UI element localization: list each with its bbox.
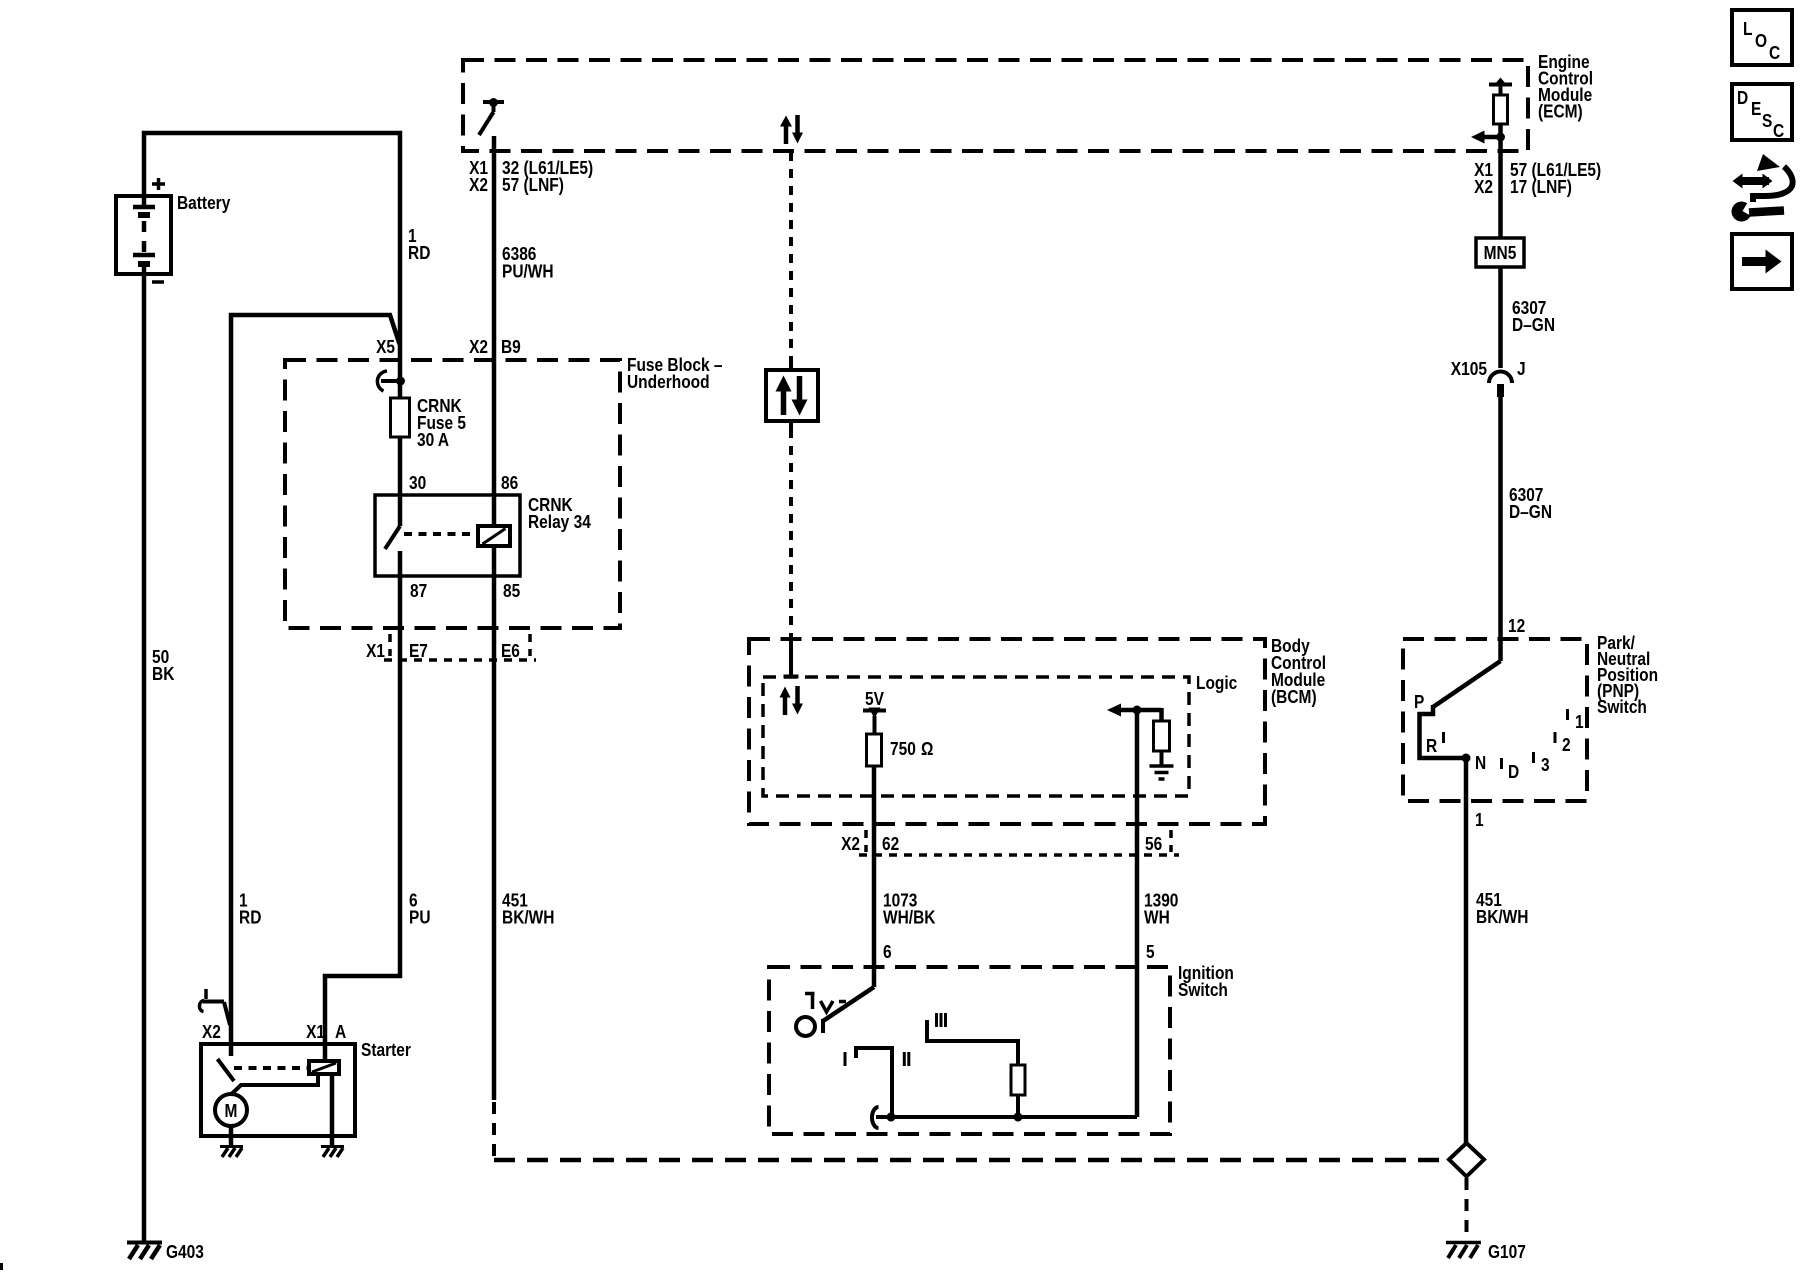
svg-text:12: 12	[1508, 616, 1525, 636]
svg-text:B9: B9	[501, 337, 521, 357]
ECM module outline (Engine Control Module)	[463, 60, 1528, 151]
wire label 50 BK	[152, 647, 174, 684]
icon DESC box	[1732, 84, 1792, 141]
connector row X1 E7 E6	[366, 641, 520, 661]
fuse block label	[627, 355, 723, 392]
svg-text:Battery: Battery	[177, 193, 230, 213]
wire motor to ground	[229, 1126, 234, 1146]
relay mechanical link dashed	[404, 532, 476, 536]
svg-text:RD: RD	[239, 908, 261, 928]
svg-text:R: R	[1426, 736, 1437, 756]
svg-text:5V: 5V	[865, 689, 884, 709]
BCM input arrow	[1107, 704, 1162, 717]
svg-text:WH: WH	[1144, 908, 1170, 928]
svg-text:G403: G403	[166, 1242, 204, 1262]
ignition momentary start arrow	[805, 994, 846, 1013]
wire BCM 56 input (1390)	[1135, 710, 1140, 1117]
PNP switch outline	[1403, 639, 1587, 801]
starter box	[201, 1044, 355, 1136]
svg-text:D–GN: D–GN	[1509, 502, 1552, 522]
svg-text:D–GN: D–GN	[1512, 315, 1555, 335]
BCM outline (Body Control Module)	[749, 639, 1265, 824]
position mark I	[844, 1052, 847, 1066]
5V supply	[863, 689, 886, 734]
svg-text:1: 1	[1475, 810, 1484, 830]
wire battery positive feed	[144, 133, 400, 398]
svg-text:G107: G107	[1488, 1242, 1526, 1262]
connector clip X2 starter	[199, 989, 230, 1025]
fuse block underhood outline	[285, 360, 620, 628]
wire resistor to bus	[1016, 1095, 1020, 1117]
dashed serial data wire lower	[789, 429, 793, 645]
position letter D with tick	[1502, 758, 1520, 782]
svg-text:3: 3	[1541, 755, 1550, 775]
svg-text:S: S	[1762, 111, 1772, 131]
svg-text:MN5: MN5	[1484, 243, 1517, 263]
dashed wire 451 vertical drop	[492, 1102, 496, 1158]
svg-text:2: 2	[1562, 735, 1571, 755]
starter solenoid coil	[309, 1061, 339, 1074]
svg-text:X105: X105	[1451, 359, 1487, 379]
svg-text:5: 5	[1146, 942, 1155, 962]
svg-text:RD: RD	[408, 243, 430, 263]
ground BCM internal	[1150, 766, 1174, 779]
position mark II	[904, 1052, 909, 1066]
junction dot N	[1462, 754, 1471, 763]
svg-text:Logic: Logic	[1196, 673, 1237, 693]
terminal bar at logic box	[784, 675, 799, 679]
connector X105 J	[1451, 359, 1526, 397]
ground G107	[1446, 1242, 1526, 1262]
svg-text:62: 62	[882, 834, 899, 854]
ECM right pin labels	[1474, 160, 1601, 197]
relay pin labels 87 85	[410, 581, 520, 601]
relay contact blade	[385, 526, 400, 549]
dashed wire diamond to ground	[1465, 1178, 1469, 1239]
svg-text:E: E	[1751, 99, 1761, 119]
resistor pull-up in ECM	[1494, 95, 1508, 124]
svg-text:X1: X1	[366, 641, 385, 661]
wire solenoid contact to motor	[232, 1074, 319, 1094]
svg-text:(BCM): (BCM)	[1271, 687, 1317, 707]
svg-text:A: A	[335, 1022, 346, 1042]
ignition bus wire	[876, 1115, 1137, 1119]
wire label 6 PU	[409, 891, 431, 928]
ignition switch label	[1178, 963, 1234, 1000]
battery minus mark	[152, 280, 164, 284]
svg-text:X2: X2	[202, 1022, 221, 1042]
svg-text:30: 30	[409, 473, 426, 493]
svg-text:X2: X2	[841, 834, 860, 854]
svg-text:BK/WH: BK/WH	[502, 908, 555, 928]
battery plus mark	[152, 178, 165, 190]
svg-text:E6: E6	[501, 641, 520, 661]
svg-text:17 (LNF): 17 (LNF)	[1510, 177, 1572, 197]
wire relay coil to E6 (451 BK/WH upper)	[492, 546, 497, 1100]
svg-text:PU/WH: PU/WH	[502, 262, 554, 282]
wire label 1073 WH/BK	[883, 891, 936, 928]
svg-text:Switch: Switch	[1178, 980, 1228, 1000]
position I contact	[856, 1048, 892, 1117]
relay pin labels 30 86	[409, 473, 518, 493]
svg-text:X2: X2	[469, 337, 488, 357]
fuse CRNK Fuse 5 30A	[391, 396, 467, 450]
svg-text:O: O	[1755, 31, 1767, 51]
ECM internal signal arrow (to logic)	[1471, 131, 1505, 144]
connector row X2 62 56	[841, 834, 1162, 854]
starter contact blade	[218, 1059, 235, 1081]
svg-text:86: 86	[501, 473, 518, 493]
ignition bus end clip	[872, 1107, 878, 1128]
wire battery to starter branch	[231, 315, 400, 1045]
svg-text:D: D	[1737, 88, 1748, 108]
svg-text:WH/BK: WH/BK	[883, 908, 936, 928]
svg-text:57 (LNF): 57 (LNF)	[502, 175, 564, 195]
starter X2 stub	[229, 1044, 234, 1056]
svg-text:P: P	[1414, 692, 1424, 712]
position III contact	[927, 1020, 1018, 1065]
position mark 1 with tick	[1568, 709, 1584, 732]
svg-text:BK/WH: BK/WH	[1476, 907, 1529, 927]
BCM sense resistor	[1154, 708, 1170, 765]
wire X105 to PNP pin 12	[1498, 397, 1503, 661]
relay CRNK Relay 34 box	[375, 495, 520, 576]
dashed serial data wire upper	[789, 152, 793, 362]
dashed wire 451 horizontal run	[494, 1158, 1448, 1163]
connector stub above arrow box	[789, 362, 793, 370]
icon forward arrow box	[1732, 234, 1792, 289]
PNP blade to N contact path	[1420, 705, 1468, 758]
connector clip X5	[377, 371, 405, 391]
position mark 3 with tick	[1534, 752, 1550, 775]
ignition switch pin labels 6 5	[883, 942, 1155, 962]
wire relay 87 to starter A	[325, 551, 400, 1061]
connector box 62 56 dashed	[859, 830, 1179, 855]
svg-text:Switch: Switch	[1597, 697, 1647, 717]
svg-text:Starter: Starter	[361, 1040, 411, 1060]
position letter R with tick	[1426, 732, 1444, 756]
wire BCM 62 output (1073)	[872, 766, 877, 987]
wire 6386 PU/WH (ECM to relay coil)	[492, 136, 497, 526]
svg-text:56: 56	[1145, 834, 1162, 854]
wire label 451 BK/WH right	[1476, 890, 1529, 927]
wire fuse to relay pin 30	[398, 437, 403, 526]
connector labels X5 X2 B9	[376, 337, 521, 357]
svg-text:1: 1	[1575, 712, 1584, 732]
starter motor M	[215, 1094, 247, 1126]
svg-text:X2: X2	[1474, 177, 1493, 197]
wire label 1 RD lower	[239, 891, 261, 928]
svg-text:87: 87	[410, 581, 427, 601]
wire label 451 BK/WH left	[502, 891, 555, 928]
svg-text:N: N	[1475, 753, 1486, 773]
PNP switch blade	[1433, 661, 1501, 707]
relay label	[528, 495, 591, 532]
junction dot bus left	[887, 1113, 896, 1122]
connector stub below arrow box	[789, 421, 793, 429]
icon troubleshooting arrows and wrench	[1732, 154, 1793, 222]
svg-text:750: 750	[890, 739, 916, 759]
splice diamond	[1449, 1143, 1484, 1177]
svg-text:30 A: 30 A	[417, 430, 449, 450]
ignition resistor	[1011, 1065, 1025, 1095]
ECM serial data arrows	[780, 115, 803, 144]
svg-text:X1: X1	[306, 1022, 325, 1042]
battery	[116, 196, 171, 274]
ECM crank output driver switch	[479, 98, 504, 135]
wire PNP output to diamond	[1464, 758, 1469, 1144]
svg-text:C: C	[1773, 121, 1784, 141]
logic serial data arrows	[780, 686, 804, 715]
wire battery negative	[142, 267, 147, 1242]
serial data boxed arrows symbol	[766, 370, 818, 421]
svg-text:(ECM): (ECM)	[1538, 102, 1583, 122]
svg-text:X2: X2	[469, 175, 488, 195]
svg-text:D: D	[1508, 762, 1519, 782]
page corner mark	[0, 1263, 3, 1270]
solid lead into BCM logic	[789, 641, 793, 676]
wire label 1390 WH	[1144, 891, 1178, 928]
wire ECM resistor to MN5	[1498, 124, 1503, 238]
connector box E7 E6 dashed	[384, 634, 536, 660]
svg-text:C: C	[1769, 43, 1780, 63]
starter mechanical link dashed	[234, 1066, 308, 1070]
svg-text:L: L	[1743, 19, 1753, 39]
icon LOC box	[1732, 10, 1792, 65]
wire label 6386 PU/WH	[502, 244, 554, 282]
BCM label	[1271, 636, 1326, 707]
ground starter solenoid	[321, 1147, 344, 1158]
wire solenoid to ground	[330, 1074, 335, 1146]
svg-text:M: M	[225, 1101, 238, 1121]
starter pin labels X2 X1 A	[202, 1022, 346, 1042]
svg-text:Ω: Ω	[921, 739, 933, 759]
position mark 2 with tick	[1555, 732, 1571, 755]
junction dot bus resistor	[1014, 1113, 1023, 1122]
svg-text:PU: PU	[409, 908, 431, 928]
ignition switch outline	[769, 967, 1170, 1134]
wire label 1 RD upper	[408, 226, 430, 263]
wire label 6307 D-GN lower	[1509, 485, 1552, 522]
ground starter motor	[220, 1147, 243, 1158]
svg-text:E7: E7	[409, 641, 428, 661]
wire MN5 to X105	[1498, 267, 1503, 368]
ECM B+ supply bar	[1489, 78, 1512, 96]
svg-text:85: 85	[503, 581, 520, 601]
relay coil	[478, 526, 510, 546]
wire label 6307 D-GN upper	[1512, 298, 1555, 335]
ignition switch blade	[823, 987, 874, 1033]
ground G403	[127, 1242, 204, 1262]
svg-text:BK: BK	[152, 664, 174, 684]
ignition switch pivot circle	[796, 1017, 815, 1036]
svg-text:Underhood: Underhood	[627, 372, 710, 392]
connector MN5	[1476, 238, 1524, 267]
ECM pin labels X1 32 X2 57	[469, 158, 593, 195]
svg-text:Relay 34: Relay 34	[528, 512, 591, 532]
svg-text:X5: X5	[376, 337, 395, 357]
svg-text:6: 6	[883, 942, 892, 962]
ECM label	[1538, 52, 1593, 122]
position mark III	[937, 1013, 946, 1027]
BCM logic box	[763, 677, 1189, 796]
svg-text:J: J	[1517, 359, 1526, 379]
PNP label	[1597, 633, 1658, 717]
resistor 750 ohm	[867, 734, 934, 766]
